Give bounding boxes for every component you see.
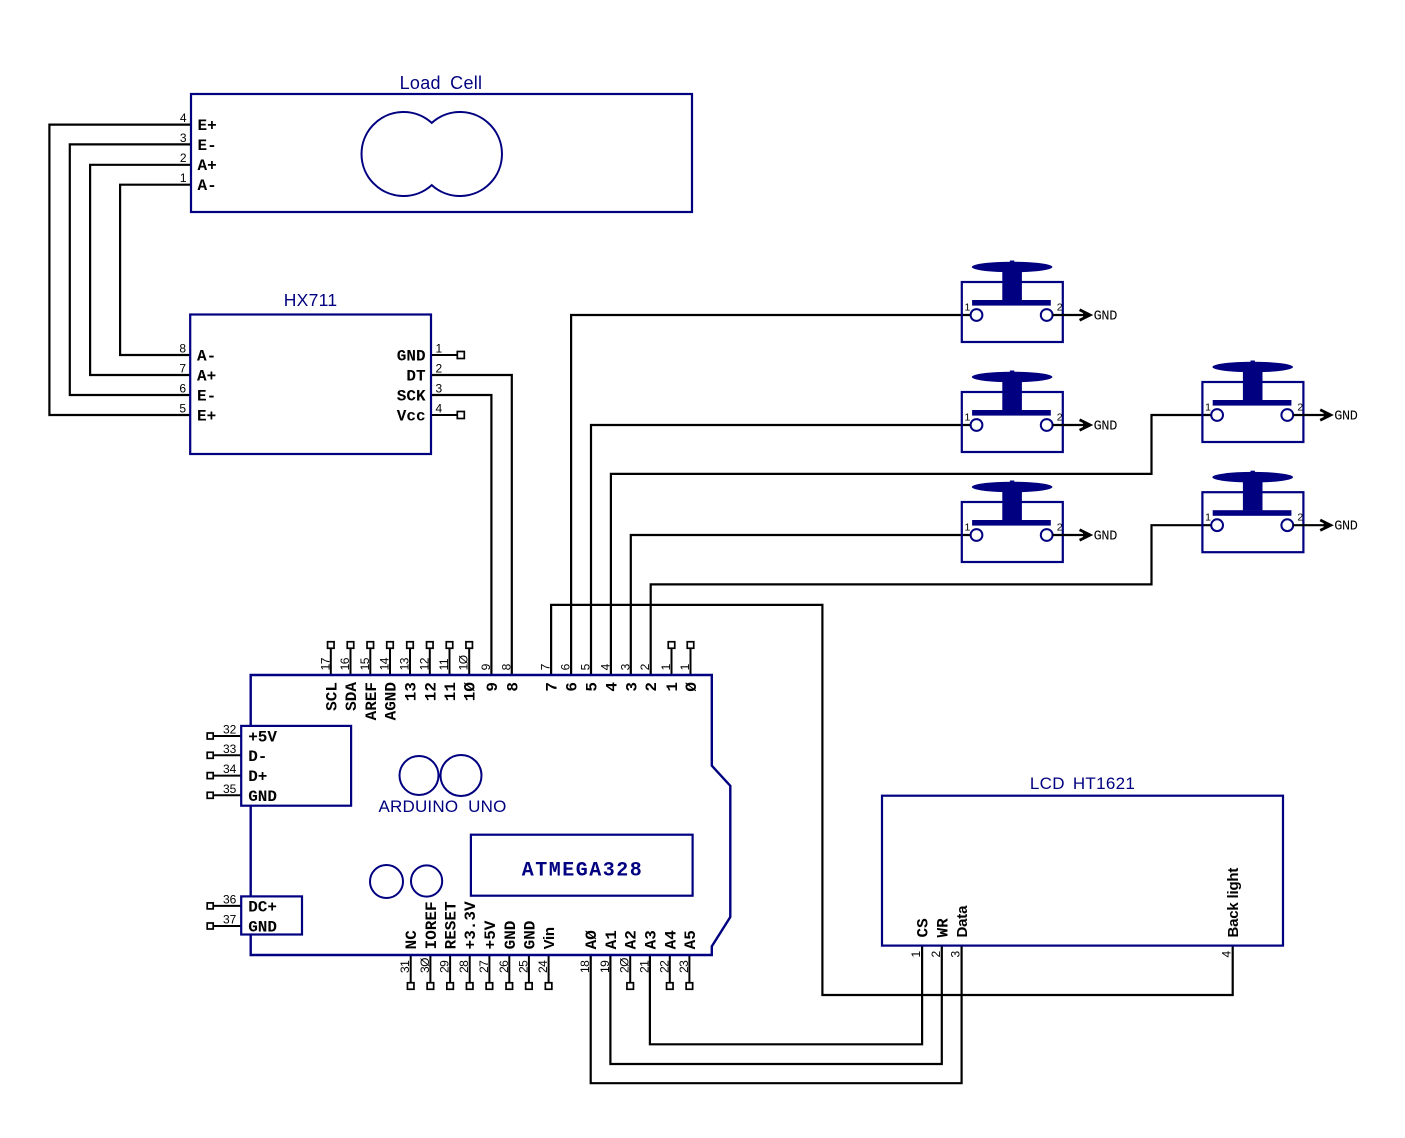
svg-text:SDA: SDA [343,682,361,711]
svg-text:5: 5 [584,682,602,692]
svg-text:3: 3 [618,663,632,670]
svg-text:1: 1 [180,171,187,185]
svg-text:5: 5 [179,402,186,416]
svg-text:WR: WR [934,918,952,938]
svg-text:GND: GND [521,921,539,950]
svg-text:2: 2 [638,663,652,670]
svg-text:ATMEGA328: ATMEGA328 [522,860,644,883]
svg-text:7: 7 [179,362,186,376]
svg-text:A+: A+ [197,368,216,386]
svg-text:RESET: RESET [443,901,461,949]
svg-text:25: 25 [516,960,530,973]
svg-text:1: 1 [909,951,923,958]
svg-text:12: 12 [422,682,440,701]
svg-text:11: 11 [442,682,460,701]
svg-text:4: 4 [598,663,612,670]
svg-text:3: 3 [949,951,963,958]
svg-text:23: 23 [677,960,691,973]
svg-text:4: 4 [436,402,443,416]
svg-text:1: 1 [965,412,971,424]
svg-text:1: 1 [1205,512,1211,524]
svg-text:GND: GND [1094,420,1118,435]
svg-text:26: 26 [497,960,511,973]
svg-text:35: 35 [223,782,237,796]
svg-text:9: 9 [484,682,502,692]
svg-text:2: 2 [643,682,661,692]
svg-text:14: 14 [378,657,392,670]
svg-text:SCK: SCK [397,388,426,406]
svg-text:2Ø: 2Ø [618,958,632,973]
svg-text:LCD HT1621: LCD HT1621 [1030,774,1135,793]
svg-text:A1: A1 [603,930,621,949]
svg-text:2: 2 [1057,522,1063,534]
svg-text:1: 1 [965,302,971,314]
svg-text:ARDUINO UNO: ARDUINO UNO [378,797,506,816]
svg-text:AØ: AØ [583,930,601,950]
svg-text:AGND: AGND [383,682,401,720]
svg-text:36: 36 [223,892,237,906]
svg-text:22: 22 [657,960,671,973]
svg-text:Back light: Back light [1225,868,1242,938]
svg-text:CS: CS [915,918,933,938]
svg-text:Vin: Vin [541,927,558,949]
svg-text:GND: GND [1334,520,1358,535]
svg-text:16: 16 [338,657,352,670]
svg-text:27: 27 [477,960,491,973]
svg-text:+5V: +5V [248,729,277,747]
svg-text:1: 1 [1205,402,1211,414]
svg-text:AREF: AREF [363,682,381,720]
svg-text:29: 29 [438,960,452,973]
svg-text:33: 33 [223,742,237,756]
svg-text:1: 1 [659,663,673,670]
svg-text:A4: A4 [662,930,680,950]
svg-text:9: 9 [479,663,493,670]
svg-text:19: 19 [598,960,612,973]
svg-text:E-: E- [197,388,216,406]
svg-text:7: 7 [544,682,562,692]
svg-text:E+: E+ [198,117,217,135]
svg-text:A3: A3 [642,930,660,949]
svg-text:+5V: +5V [482,920,500,949]
svg-text:2: 2 [436,362,443,376]
svg-text:13: 13 [403,682,421,701]
svg-text:1Ø: 1Ø [462,682,480,702]
svg-text:3: 3 [623,682,641,692]
svg-text:7: 7 [539,663,553,670]
svg-text:28: 28 [457,960,471,973]
svg-text:D-: D- [248,748,267,766]
svg-text:1: 1 [678,663,692,670]
svg-text:2: 2 [929,951,943,958]
svg-text:2: 2 [1297,512,1303,524]
svg-text:A5: A5 [682,930,700,949]
svg-text:17: 17 [318,657,332,670]
svg-text:2: 2 [1057,412,1063,424]
svg-text:21: 21 [637,960,651,973]
svg-text:E-: E- [198,137,217,155]
svg-text:1Ø: 1Ø [457,655,471,670]
svg-text:Vcc: Vcc [397,408,426,426]
svg-text:+3.3V: +3.3V [462,901,480,949]
svg-text:1: 1 [965,522,971,534]
svg-text:8: 8 [499,663,513,670]
svg-text:3Ø: 3Ø [418,958,432,973]
svg-text:32: 32 [223,723,237,737]
svg-text:8: 8 [179,342,186,356]
svg-text:E+: E+ [197,408,216,426]
svg-text:5: 5 [579,663,593,670]
svg-text:4: 4 [1220,951,1234,958]
svg-text:4: 4 [603,682,621,692]
svg-text:15: 15 [358,657,372,670]
svg-text:37: 37 [223,913,237,927]
svg-text:13: 13 [398,657,412,670]
svg-text:1: 1 [436,342,443,356]
svg-text:DC+: DC+ [248,898,277,916]
svg-text:DT: DT [406,368,426,386]
svg-text:2: 2 [1297,402,1303,414]
svg-text:34: 34 [223,762,237,776]
svg-text:6: 6 [564,682,582,692]
svg-text:4: 4 [180,111,187,125]
svg-text:GND: GND [397,348,426,366]
svg-text:3: 3 [180,131,187,145]
svg-text:GND: GND [248,788,277,806]
svg-text:NC: NC [403,930,421,950]
svg-text:24: 24 [536,960,550,973]
svg-text:6: 6 [559,663,573,670]
svg-text:12: 12 [417,657,431,670]
svg-text:Ø: Ø [683,682,701,692]
svg-text:GND: GND [1094,310,1118,325]
svg-text:A2: A2 [623,930,641,949]
svg-text:3: 3 [436,382,443,396]
svg-text:GND: GND [1094,530,1118,545]
svg-text:18: 18 [578,960,592,973]
svg-text:11: 11 [437,658,451,670]
svg-text:GND: GND [502,921,520,950]
svg-text:Data: Data [954,905,971,938]
svg-text:GND: GND [248,919,277,937]
svg-text:D+: D+ [248,768,267,786]
svg-text:2: 2 [1057,302,1063,314]
svg-text:GND: GND [1334,410,1358,425]
svg-text:A-: A- [197,348,216,366]
svg-text:Load Cell: Load Cell [400,73,483,93]
svg-text:6: 6 [179,382,186,396]
svg-text:1: 1 [664,682,682,692]
svg-text:2: 2 [180,151,187,165]
svg-text:A+: A+ [198,157,217,175]
svg-text:A-: A- [198,177,217,195]
svg-text:SCL: SCL [323,682,341,711]
svg-text:HX711: HX711 [284,290,338,310]
svg-text:31: 31 [398,960,412,973]
svg-text:8: 8 [504,682,522,692]
svg-text:IOREF: IOREF [423,901,441,949]
